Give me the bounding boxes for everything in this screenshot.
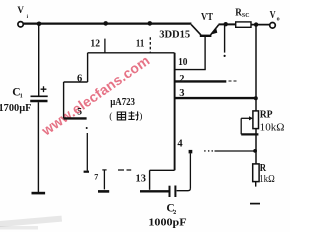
svg-text:11: 11 — [136, 37, 144, 49]
svg-text:3DD15: 3DD15 — [159, 28, 190, 40]
svg-text:3: 3 — [179, 88, 184, 99]
svg-text:1700µF: 1700µF — [0, 102, 32, 114]
svg-text:10kΩ: 10kΩ — [260, 123, 285, 134]
svg-text:2: 2 — [179, 74, 184, 85]
svg-text:10: 10 — [178, 57, 187, 68]
svg-text:13: 13 — [136, 174, 146, 185]
svg-text:5: 5 — [77, 108, 82, 118]
svg-text:V: V — [17, 5, 24, 15]
svg-text:µA723: µA723 — [110, 97, 135, 108]
svg-text:12: 12 — [90, 37, 100, 49]
svg-text:o: o — [277, 17, 280, 23]
svg-text:www.elecfans.com: www.elecfans.com — [38, 52, 153, 139]
svg-text:1000pF: 1000pF — [148, 217, 187, 229]
svg-text:R: R — [260, 162, 267, 174]
svg-text:VT: VT — [201, 12, 213, 23]
svg-text:6: 6 — [77, 74, 82, 85]
svg-text:1: 1 — [20, 93, 23, 99]
svg-text:4: 4 — [177, 138, 183, 149]
svg-text:(: ( — [109, 111, 112, 122]
svg-text:2: 2 — [173, 210, 176, 216]
svg-text:V: V — [270, 10, 277, 21]
svg-text:SC: SC — [242, 12, 250, 19]
svg-text:1kΩ: 1kΩ — [259, 174, 275, 185]
svg-text:i: i — [27, 15, 29, 20]
svg-text:): ) — [139, 111, 142, 122]
svg-text:7: 7 — [94, 173, 98, 182]
svg-text:RP: RP — [260, 110, 273, 121]
